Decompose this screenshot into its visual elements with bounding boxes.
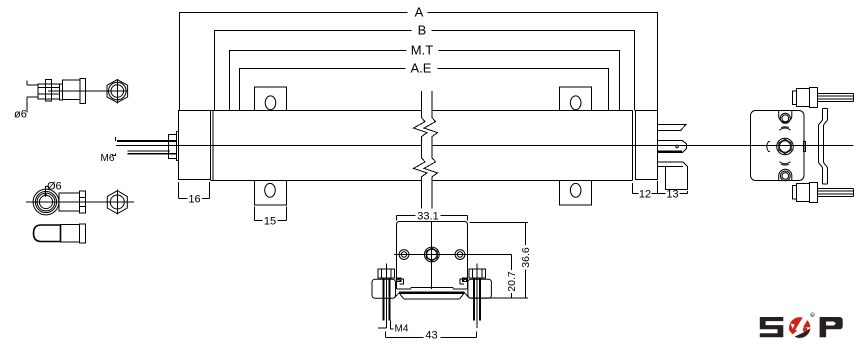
rod end bearing (bottom-left) [26, 189, 134, 215]
clamp bolt right [460, 264, 491, 329]
clevis stud phi6 (top-left part) [14, 81, 39, 121]
rod washer [177, 132, 179, 161]
SOP logo [760, 313, 843, 340]
dimension 12 [633, 181, 658, 201]
logo letter P [820, 317, 843, 337]
connector center hex [777, 138, 794, 155]
connector top hole [780, 113, 790, 123]
clamp saddle [394, 293, 471, 299]
body left end cap [179, 111, 211, 180]
svg-text:M.T: M.T [411, 43, 433, 58]
hex nut bottom-left [107, 190, 127, 215]
svg-text:A.E: A.E [411, 61, 432, 76]
dimension 20.7 [506, 255, 518, 299]
stud flange [46, 80, 52, 102]
svg-text:M6: M6 [101, 153, 115, 164]
svg-text:20.7: 20.7 [506, 271, 518, 292]
svg-text:A: A [415, 5, 424, 20]
bolt bottom-right [793, 183, 854, 203]
stud body [63, 80, 81, 100]
svg-text:13: 13 [666, 189, 678, 201]
body tube top [211, 110, 422, 112]
pin middle [658, 141, 687, 153]
logo letter S [760, 317, 784, 337]
svg-text:15: 15 [264, 216, 276, 228]
connector arc slot bottom [780, 162, 791, 164]
stud end flange [80, 79, 86, 104]
svg-text:16: 16 [188, 194, 200, 206]
bolt top-right [793, 88, 854, 108]
mounting foot upper-right [560, 87, 592, 111]
clamp bolt left (M4) [372, 264, 403, 329]
stud centerline [48, 90, 128, 92]
connector bottom boss [779, 169, 792, 180]
label phi6 rod end [44, 181, 61, 198]
logo registered mark [811, 313, 815, 317]
hex nut top-left [107, 79, 128, 104]
svg-text:43: 43 [425, 330, 437, 342]
rod end shank [59, 193, 80, 211]
connector right slot [803, 142, 805, 152]
dimension 33.1 [397, 211, 468, 223]
mounting foot lower-left [255, 181, 287, 206]
logo white sector [797, 327, 811, 338]
connector top boss [779, 111, 792, 123]
clamp plate (bottom center) [394, 222, 508, 289]
logo white flash notch [791, 324, 795, 329]
rod end collar nut [80, 191, 86, 213]
break line left [414, 91, 428, 209]
rod collar [169, 135, 177, 159]
main centerline [116, 145, 422, 147]
svg-text:33.1: 33.1 [417, 211, 438, 223]
piston rod (left, M6) [117, 141, 176, 154]
pin bottom bracket [658, 162, 688, 190]
body left joint line [212, 111, 214, 181]
clamp bracket strip (right) [819, 109, 828, 185]
dimension 13 [658, 189, 688, 201]
pin top (right end) [658, 125, 686, 131]
label M4 with leader [390, 321, 408, 335]
dimension A.E bracket [240, 61, 609, 111]
svg-text:Ø6: Ø6 [47, 181, 62, 193]
stud step [60, 84, 63, 100]
logo red circle emblem [789, 317, 810, 338]
svg-text:R: R [811, 313, 814, 317]
clamp center bolt [424, 247, 439, 262]
label M6 with leader [101, 137, 116, 164]
svg-text:36.6: 36.6 [520, 247, 532, 268]
clamp plate right hole [455, 250, 465, 260]
break line right [424, 91, 438, 209]
clamp plate left hole [399, 250, 409, 260]
dimension B bracket [215, 23, 635, 111]
connector left slot [767, 142, 769, 152]
mounting foot lower-right [560, 181, 592, 206]
connector bottom hole [780, 171, 790, 181]
body right joint line [632, 111, 634, 181]
logo white lower-left backdrop [788, 330, 800, 339]
dimension M.T bracket [230, 43, 620, 111]
mounting foot upper-left [255, 87, 287, 111]
logo red dot [803, 327, 808, 332]
protection boot [34, 224, 86, 243]
svg-text:M4: M4 [395, 324, 409, 335]
body tube bottom [211, 180, 422, 182]
connector arc slot top [780, 128, 791, 130]
logo red flash tail [789, 327, 797, 334]
svg-text:B: B [418, 23, 427, 38]
svg-text:12: 12 [639, 189, 651, 201]
dimension A bracket [180, 5, 658, 111]
dimension 36.6 [469, 223, 532, 299]
dimension 15 [255, 207, 287, 228]
dimension 16 [179, 182, 210, 206]
logo black crescent [795, 328, 811, 338]
stud threaded section [38, 84, 60, 99]
body right end cap [636, 111, 658, 180]
connector plate [751, 111, 805, 181]
logo white flash slash [795, 317, 808, 334]
svg-text:ø6: ø6 [14, 109, 27, 121]
dimension 43 [386, 330, 477, 342]
